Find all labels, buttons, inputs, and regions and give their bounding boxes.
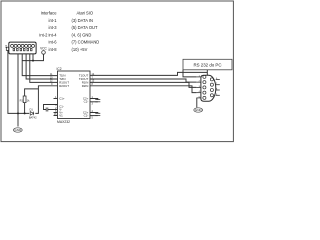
svg-text:D1: D1 — [30, 108, 34, 112]
svg-text:V1: V1 — [59, 114, 63, 118]
svg-text:1k: 1k — [27, 99, 30, 103]
svg-text:C1+: C1+ — [59, 97, 65, 101]
svg-text:R1: R1 — [20, 99, 24, 103]
svg-text:(10) +5V: (10) +5V — [72, 47, 88, 52]
svg-text:int-3: int-3 — [49, 25, 58, 30]
svg-text:C2-: C2- — [84, 114, 89, 118]
svg-text:3: 3 — [92, 103, 94, 106]
svg-text:R2IN: R2IN — [82, 84, 89, 88]
svg-text:RS 232 do PC: RS 232 do PC — [193, 62, 221, 67]
svg-text:R2OUT: R2OUT — [59, 84, 69, 88]
svg-text:(4, 6) GND: (4, 6) GND — [72, 32, 92, 37]
svg-text:MAX232: MAX232 — [57, 120, 70, 124]
svg-text:int-1: int-1 — [49, 18, 58, 23]
svg-text:Atari SIO: Atari SIO — [77, 11, 94, 16]
svg-text:(7) COMMAND: (7) COMMAND — [72, 40, 100, 45]
svg-text:int-2 int-4: int-2 int-4 — [39, 32, 57, 37]
svg-text:int-8: int-8 — [49, 47, 58, 52]
svg-text:int-6: int-6 — [49, 40, 58, 45]
svg-text:(5) DATA OUT: (5) DATA OUT — [72, 25, 99, 30]
svg-text:GND: GND — [14, 128, 22, 132]
svg-text:(3) DATA IN: (3) DATA IN — [72, 18, 93, 23]
svg-text:IC2: IC2 — [57, 67, 62, 71]
svg-text:X1: X1 — [4, 44, 8, 48]
svg-text:VCC: VCC — [40, 47, 47, 51]
svg-text:GND: GND — [195, 108, 203, 112]
svg-text:C2-: C2- — [84, 100, 89, 104]
svg-text:BAT42: BAT42 — [29, 116, 37, 120]
svg-text:Interface: Interface — [41, 11, 58, 16]
svg-text:5: 5 — [92, 117, 94, 120]
